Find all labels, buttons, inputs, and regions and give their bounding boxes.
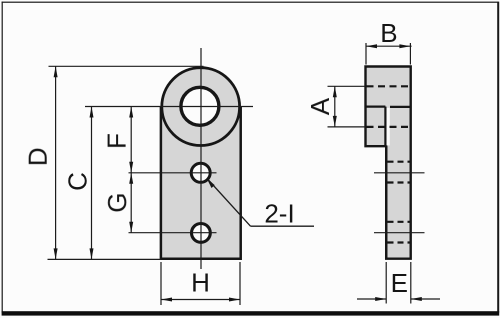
label 2-I xyxy=(264,199,294,229)
A extension line top xyxy=(328,85,366,87)
dimension line H xyxy=(161,298,240,302)
dimension line A xyxy=(333,86,337,127)
label F xyxy=(102,133,132,149)
side view silhouette xyxy=(366,67,411,259)
E extension line right xyxy=(410,262,412,304)
svg-text:B: B xyxy=(380,18,397,48)
leader line 2-I xyxy=(207,178,315,226)
B extension line left xyxy=(365,43,367,65)
hidden line middle hole bottom xyxy=(388,181,411,183)
side view bottom hole centerline xyxy=(374,232,425,234)
label C xyxy=(63,172,93,191)
svg-text:E: E xyxy=(391,268,408,298)
dimension line D xyxy=(54,66,58,259)
extension line top of plate (for D) xyxy=(49,65,204,67)
hidden line big hole top xyxy=(367,85,411,87)
B extension line right xyxy=(409,43,411,65)
label B xyxy=(380,18,397,48)
middle hole centerline xyxy=(129,172,217,174)
E extension line left xyxy=(385,262,387,304)
bottom hole (2-I) xyxy=(192,224,211,243)
svg-text:D: D xyxy=(23,147,53,166)
label H xyxy=(191,268,210,298)
side view middle hole centerline xyxy=(374,172,425,174)
svg-text:F: F xyxy=(102,133,132,149)
plate outline (front view body) xyxy=(161,107,241,259)
H extension line right xyxy=(239,262,241,305)
svg-text:A: A xyxy=(305,97,335,115)
label E xyxy=(391,268,408,298)
front view big-hole horizontal centerline xyxy=(85,106,253,108)
A extension line bottom xyxy=(328,126,366,128)
dimension line E xyxy=(357,297,440,301)
side view internal step edge (horizontal) xyxy=(366,105,411,108)
boss circle (front view head) xyxy=(162,68,240,146)
dimension line G xyxy=(129,173,133,233)
svg-text:G: G xyxy=(102,192,132,212)
label D xyxy=(23,147,53,166)
big hole (pin bore) xyxy=(181,87,219,125)
svg-text:C: C xyxy=(63,172,93,191)
bottom hole centerline xyxy=(129,232,217,234)
svg-text:2-I: 2-I xyxy=(264,199,294,229)
dimension line F xyxy=(129,107,133,173)
extension line bottom of plate (for D and C) xyxy=(48,258,162,260)
hidden line bottom hole bottom xyxy=(388,241,411,243)
svg-text:H: H xyxy=(191,268,210,298)
side view slot gap xyxy=(387,108,390,145)
label G xyxy=(102,192,132,212)
dimension line B xyxy=(366,44,412,48)
label A xyxy=(305,97,335,115)
hidden line bottom hole top xyxy=(388,221,411,223)
hidden line big hole bottom xyxy=(367,126,411,128)
dimension line C xyxy=(90,107,94,260)
middle hole (2-I) xyxy=(191,163,210,182)
hidden line middle hole top xyxy=(388,161,411,163)
side view internal step edge (vertical) xyxy=(384,107,387,259)
front view vertical centerline xyxy=(200,48,202,269)
H extension line left xyxy=(160,262,162,305)
